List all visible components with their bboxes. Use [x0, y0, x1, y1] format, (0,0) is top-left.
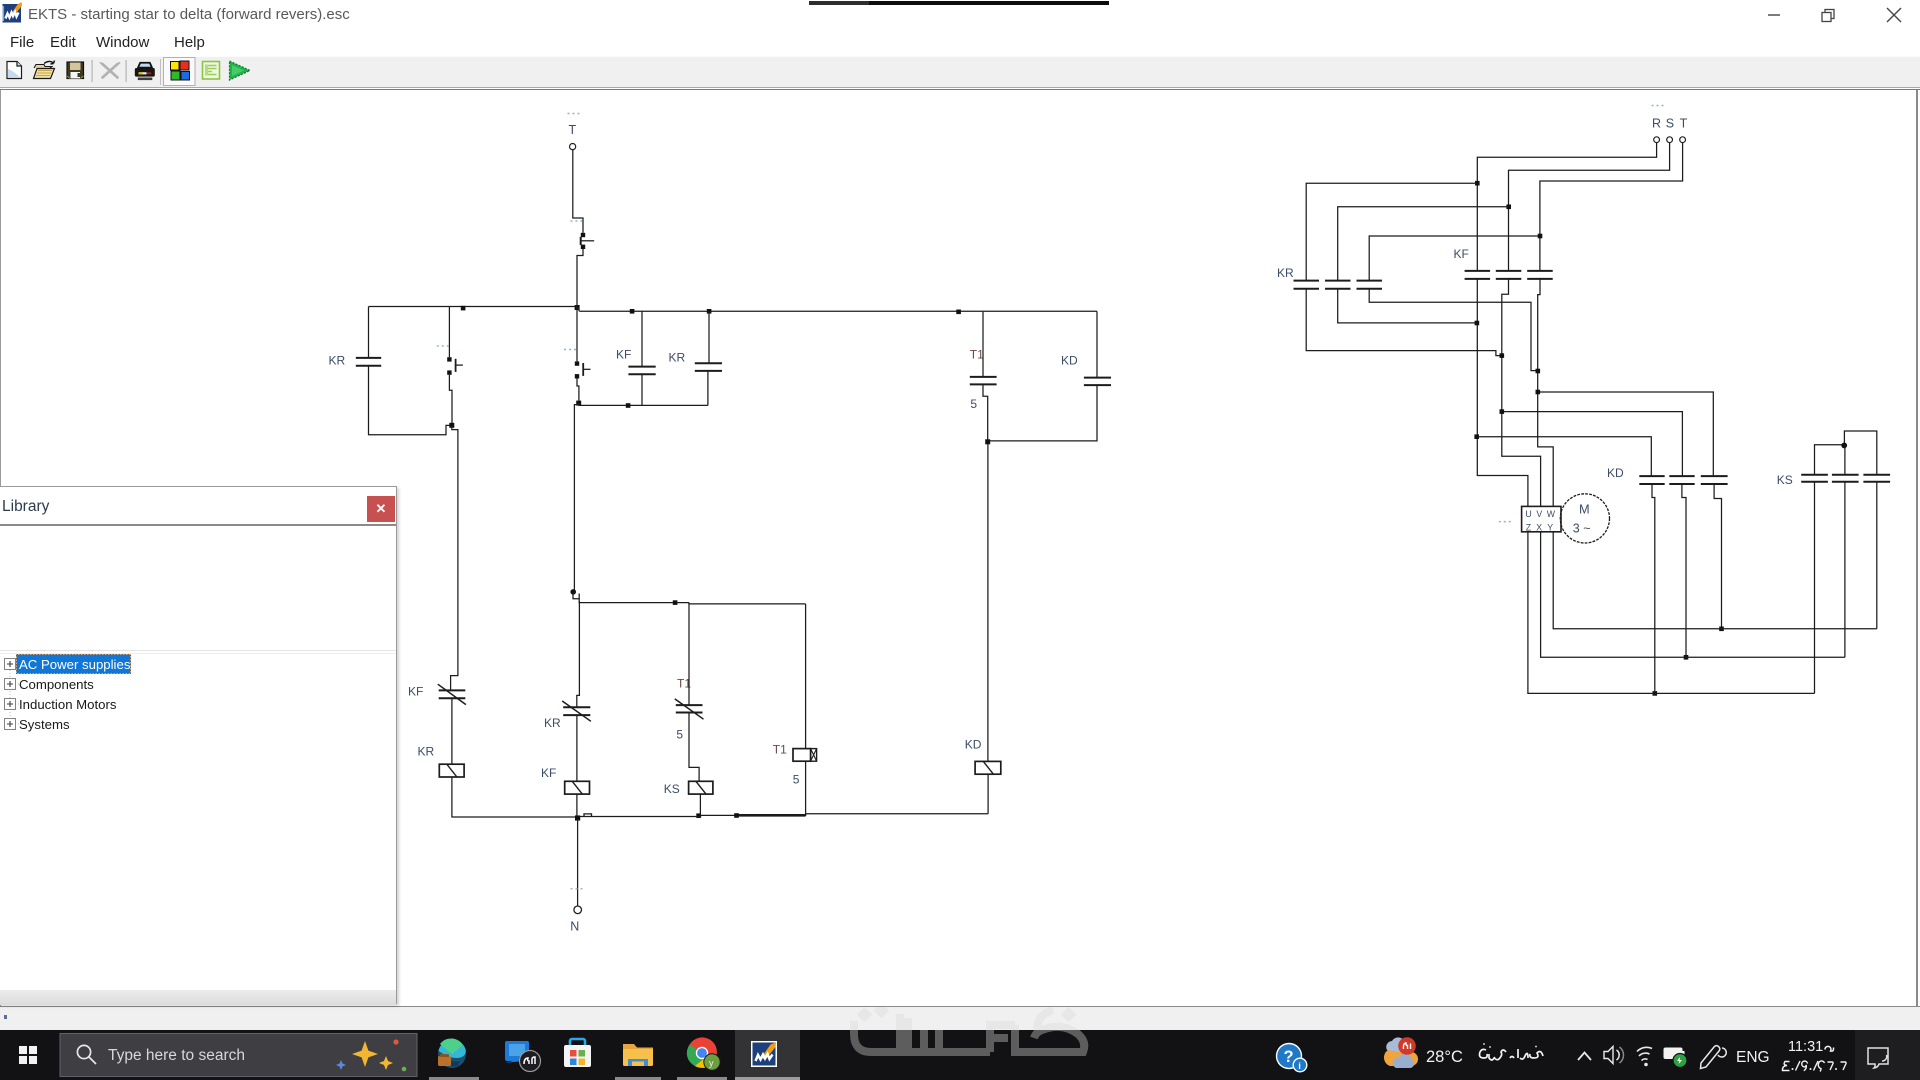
title bar: [0, 0, 1920, 30]
weather text (arabic): [1480, 1043, 1544, 1060]
wire coil T1 to bottom bus: [805, 761, 807, 815]
wire notch at node D: [573, 593, 579, 599]
black strip top: [809, 1, 869, 5]
contact S1 (T start pushbutton NO): [571, 221, 595, 249]
wire node D to T1 branch (horizontal): [579, 599, 689, 603]
svg-text:5: 5: [793, 772, 800, 786]
speaker icon: [1604, 1047, 1624, 1064]
junction dot bottom bus x736: [734, 813, 739, 818]
junction dot KS at bus: [696, 813, 701, 818]
svg-text:KF: KF: [408, 685, 423, 699]
svg-text:T1: T1: [970, 347, 984, 361]
wire to coil KF: [576, 715, 578, 781]
wire N drop: [577, 821, 579, 906]
junction dot S/KR2: [1506, 205, 1511, 210]
svg-text:N: N: [570, 919, 579, 933]
wire KS1 bottom lead: [1814, 482, 1816, 693]
window buttons: [1750, 0, 1920, 30]
start button: [19, 1046, 37, 1064]
wire KS3 bottom lead: [1876, 482, 1878, 629]
wire coil KR to bottom bus: [451, 777, 453, 817]
junction dot V/KR1: [1500, 353, 1505, 358]
junction dot V/KD2: [1500, 409, 1505, 414]
wire node C down to node D: [574, 405, 578, 591]
wire KS star tie: [1815, 445, 1842, 475]
svg-text:T: T: [569, 123, 577, 137]
menu bar: [0, 30, 1920, 56]
chrome icon: [687, 1037, 720, 1070]
wire KD1 feed: [1478, 437, 1651, 476]
contact KR aux NO (seal-in): [437, 307, 463, 424]
contactor KR pole 1: [1277, 266, 1319, 289]
wire KD3 out to line Y: [1714, 484, 1721, 626]
contact T1 NO (timed, to KD): [970, 312, 997, 440]
wire KD2 feed: [1504, 412, 1682, 476]
colour library tool icon: [171, 61, 190, 80]
clock date (arabic-indic): [1782, 1061, 1846, 1072]
node R terminal: [1652, 106, 1664, 143]
wire line Y (motor Y to KS3): [1553, 532, 1877, 629]
wire below S1 to bus: [577, 249, 583, 307]
contactor KF pole 1: [1454, 247, 1491, 279]
junction dot caps bus x628: [626, 403, 631, 408]
wire notch marker on bottom bus: [584, 814, 592, 817]
svg-text:28°C: 28°C: [1426, 1048, 1463, 1066]
svg-text:KR: KR: [1277, 266, 1294, 280]
svg-text:KR: KR: [669, 351, 686, 365]
svg-text:KF: KF: [541, 766, 556, 780]
svg-text:KS: KS: [1777, 473, 1793, 487]
junction node C: [576, 401, 581, 406]
svg-text:T: T: [1680, 117, 1688, 131]
coil KD (box with diagonal): [965, 738, 1001, 775]
svg-text:M: M: [1579, 502, 1590, 517]
wire node C to caps bottom bus: [579, 403, 708, 405]
bottom inner strip: [0, 990, 396, 1005]
pressed button around colour tool: [164, 58, 196, 86]
pen icon: [1701, 1046, 1727, 1069]
coil KR (left, capacitor-style): [329, 307, 450, 435]
svg-text:KF: KF: [616, 348, 631, 362]
EKTS active button highlight: [735, 1030, 800, 1080]
svg-text:KR: KR: [544, 716, 561, 730]
wire line W (KF3 out to motor W): [1538, 279, 1554, 506]
junction node D: [570, 589, 576, 595]
help bubble icon: [1276, 1043, 1307, 1072]
junction dot U/KD1: [1474, 434, 1479, 439]
junction dot on bus x632: [630, 309, 635, 314]
open folder icon: [34, 61, 55, 79]
junction dot W/KR3: [1536, 369, 1541, 374]
search box: [60, 1034, 417, 1077]
contact KF NO (mid branch from node A): [564, 308, 591, 401]
wire to coil KR: [451, 699, 453, 764]
coil KF (capacitor-style): [616, 311, 656, 405]
svg-text:3 ~: 3 ~: [1573, 522, 1591, 536]
junction dot U/KR2: [1475, 321, 1480, 326]
svg-text:ENG: ENG: [1736, 1049, 1770, 1066]
svg-text:KS: KS: [664, 782, 680, 796]
svg-text:Induction Motors: Induction Motors: [19, 697, 117, 712]
junction dot R/KR1: [1475, 181, 1480, 186]
svg-text:R: R: [1652, 117, 1661, 131]
contactor KF pole 3: [1527, 271, 1553, 279]
motor M terminal box: [1522, 506, 1561, 532]
action center icon: [1868, 1048, 1888, 1068]
edge browser icon: [438, 1038, 466, 1068]
EKTS taskbar icon: [751, 1041, 777, 1067]
separator: [126, 60, 127, 82]
svg-text:11:31: 11:31: [1788, 1039, 1823, 1055]
wire phase T to KF3: [1540, 143, 1683, 271]
svg-text:KF: KF: [1454, 247, 1469, 261]
printer icon: [135, 63, 155, 81]
svg-text:Systems: Systems: [19, 717, 70, 732]
wire phase S to KF2: [1509, 143, 1670, 271]
wire KD2 out to line X: [1682, 484, 1686, 655]
contactor KS pole 1: [1777, 473, 1828, 487]
junction dot on bus x709: [707, 309, 712, 314]
coil KS (box with diagonal): [664, 781, 713, 796]
wire KD3 feed: [1540, 392, 1713, 476]
junction dot x675: [673, 600, 678, 605]
wire star tie to KS3: [1844, 431, 1876, 474]
separator: [92, 60, 93, 82]
wire line V (KF2 out to motor V): [1502, 279, 1541, 506]
junction dot W/KD3: [1536, 390, 1541, 395]
contactor KR pole 2: [1325, 281, 1351, 289]
wire main bus right: [580, 310, 1098, 312]
contact KD aux (capacitor-style): [990, 311, 1111, 441]
weather icon: [1384, 1037, 1418, 1068]
junction dot Z/KD1: [1653, 691, 1658, 696]
wire KR1 feed: [1306, 183, 1477, 280]
svg-text:i: i: [1298, 1061, 1301, 1072]
node T terminal (power): [1680, 117, 1688, 143]
svg-text:5: 5: [970, 397, 977, 411]
junction dot X/KD2: [1684, 655, 1689, 660]
new document icon: [7, 62, 22, 79]
copilot sparkles: [336, 1039, 406, 1071]
junction dot on bus x958: [956, 310, 961, 315]
wire coil KF to bottom bus: [576, 794, 578, 817]
svg-text:T1: T1: [773, 743, 787, 757]
junction dot Y/KD3: [1719, 627, 1724, 632]
tray chevron: [1578, 1053, 1591, 1061]
junction node A (T joins main bus): [575, 305, 580, 310]
separator above tree: [0, 650, 396, 651]
junction node star point: [1841, 443, 1847, 449]
wire main bus left: [369, 307, 580, 312]
report/list tool icon: [203, 62, 220, 80]
motor M 3~: [1499, 494, 1610, 543]
title: [0, 487, 396, 526]
wire KR2 feed: [1338, 207, 1509, 280]
svg-text:Type here to search: Type here to search: [108, 1047, 245, 1064]
microsoft store icon: [564, 1039, 591, 1067]
wire line X (motor X to KS2): [1541, 532, 1845, 658]
wire from node B down to KF NC: [451, 428, 458, 690]
svg-text:?: ?: [1284, 1048, 1294, 1066]
junction node E: [985, 439, 990, 444]
taskbar: [0, 1030, 1920, 1080]
running app underlines: [429, 1077, 479, 1080]
wire T1 NC to coil KS: [689, 713, 699, 781]
delete X icon (disabled): [101, 63, 120, 78]
coil KR (box with diagonal): [418, 745, 465, 778]
junction dot on bus x463: [461, 306, 466, 311]
toolbar: [0, 56, 1920, 88]
messaging app icon with badge 32: [505, 1041, 541, 1072]
coil KF (box with diagonal): [541, 766, 590, 794]
wire phase R to KF1: [1477, 143, 1656, 271]
wire node E down to coil KD: [987, 444, 989, 761]
gray strip below canvas: [0, 1007, 1920, 1030]
svg-text:KD: KD: [1061, 354, 1078, 368]
separator: [160, 59, 161, 85]
watermark khamsat (lower, on taskbar): [0, 1030, 1920, 1080]
wire horizontal to T1 coil branch: [689, 603, 806, 604]
wire KR3 feed: [1369, 236, 1540, 280]
contactor KD pole 2: [1669, 476, 1694, 484]
node S terminal: [1666, 117, 1674, 143]
svg-text:5: 5: [676, 728, 683, 742]
coil KR2 (capacitor-style): [669, 311, 723, 405]
wire node D down through KR NC: [577, 601, 580, 707]
library window: [0, 486, 397, 1004]
wifi icon: [1637, 1047, 1652, 1066]
contactor KF pole 2: [1496, 271, 1522, 279]
wire bottom bus: [451, 814, 988, 817]
watermark khamsat (upper, on light strip): [0, 1007, 1920, 1030]
file explorer icon: [623, 1044, 653, 1066]
wire KR1 out to line V: [1306, 289, 1500, 356]
wire bottom bus thick overlap: [736, 814, 806, 817]
contactor KS pole 3: [1863, 475, 1890, 482]
svg-text:Components: Components: [19, 677, 94, 692]
svg-text:KD: KD: [1607, 466, 1624, 480]
wire coil KS to bottom bus: [699, 794, 701, 815]
svg-text:KR: KR: [329, 354, 346, 368]
coil T1 (timer, box with X terminal): [773, 604, 817, 787]
contact KR NC (interlock): [544, 701, 591, 730]
contact T1 NC (timed): [675, 603, 704, 742]
wire KD1 out to line Z: [1652, 484, 1655, 691]
svg-text:S: S: [1666, 117, 1674, 131]
wire T drop: [573, 150, 583, 233]
node T (supply terminal): [568, 114, 580, 150]
contactor KR pole 3: [1357, 281, 1383, 289]
wire KS2 top lead: [1844, 445, 1846, 474]
svg-text:y: y: [709, 1058, 714, 1068]
contactor KD pole 1: [1607, 466, 1665, 484]
wire coil KD to bottom bus: [987, 774, 989, 814]
wire KR3 out to line W: [1369, 289, 1536, 371]
tree: [0, 653, 398, 743]
svg-text:AC Power supplies: AC Power supplies: [19, 657, 131, 672]
junction node B (left loop): [449, 423, 454, 428]
svg-text:KR: KR: [418, 745, 435, 759]
wire KS2 bottom lead: [1844, 482, 1846, 657]
save floppy icon: [67, 62, 84, 79]
junction dot T/KR3: [1538, 234, 1543, 239]
wire line Z (motor Z to KS1): [1528, 532, 1815, 694]
contactor KS pole 2: [1832, 475, 1859, 482]
contact KF NC (interlock): [408, 684, 466, 704]
node N (neutral terminal): [570, 889, 582, 934]
run/play tool icon: [230, 61, 251, 80]
wire KR2 out to line U: [1338, 289, 1475, 323]
canvas frame: [0, 89, 1920, 90]
wire line U (KF1 out to motor U): [1477, 279, 1528, 506]
svg-text:ZXY: ZXY: [1526, 523, 1558, 533]
svg-text:UVW: UVW: [1525, 509, 1559, 519]
svg-text:KD: KD: [965, 738, 982, 752]
battery icon: [1664, 1048, 1688, 1068]
junction node N-drop: [575, 815, 580, 820]
contactor KD pole 3: [1701, 476, 1728, 484]
